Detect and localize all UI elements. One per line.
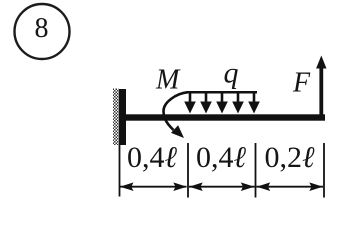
distributed load top line — [187, 91, 258, 94]
svg-text:q: q — [224, 57, 239, 90]
svg-text:M: M — [155, 65, 181, 96]
moment arrowhead — [171, 125, 184, 138]
dimension line segment 3 — [257, 182, 324, 191]
q arrow 2 — [200, 92, 212, 114]
svg-text:0,4ℓ: 0,4ℓ — [127, 141, 178, 174]
q arrow 5 — [248, 92, 260, 114]
svg-text:0,4ℓ: 0,4ℓ — [196, 141, 247, 174]
dimension tick 4 — [323, 143, 325, 198]
dimension tick 1 — [119, 145, 121, 197]
dimension line segment 1 — [120, 182, 187, 191]
beam — [120, 114, 325, 120]
q arrow 3 — [216, 92, 228, 114]
svg-text:0,2ℓ: 0,2ℓ — [265, 141, 316, 174]
wall bar — [119, 89, 126, 145]
q arrow 1 — [184, 92, 196, 114]
svg-text:F: F — [292, 68, 311, 99]
dimension tick 3 — [255, 143, 257, 198]
svg-text:8: 8 — [35, 13, 49, 44]
moment arc — [164, 92, 189, 130]
dimension tick 2 — [187, 143, 189, 198]
dimension line segment 2 — [189, 182, 255, 191]
wall hatching — [113, 89, 119, 146]
q arrow 4 — [232, 92, 244, 114]
force F arrow — [316, 56, 326, 115]
circle badge with number 8 — [15, 4, 70, 59]
